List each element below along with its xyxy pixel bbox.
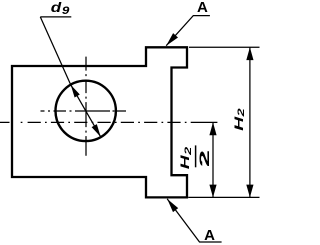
section arrow A bottom xyxy=(167,199,178,212)
svg-text:A: A xyxy=(197,0,208,16)
section arrow A top xyxy=(166,33,178,46)
d9 leader line xyxy=(40,17,70,85)
section leader A top xyxy=(166,16,210,46)
d9 lower arrowhead xyxy=(92,124,101,137)
d9 diameter line across hole xyxy=(71,85,101,137)
svg-text:2: 2 xyxy=(197,150,213,167)
H2 top arrowhead xyxy=(246,47,253,60)
vertical centerline of hole xyxy=(85,57,87,156)
H2 bottom arrowhead xyxy=(246,185,253,198)
horizontal centerline of hole xyxy=(41,110,127,112)
extension line top (H2) xyxy=(189,46,260,48)
H2/2 bottom arrowhead xyxy=(209,185,216,198)
svg-text:A: A xyxy=(204,227,215,244)
H2/2 top arrowhead xyxy=(209,122,216,135)
dimension line H2/2 xyxy=(212,122,214,197)
label H2/2 (rotated fraction) xyxy=(179,145,212,169)
d9 upper arrowhead xyxy=(71,85,80,98)
hole circle xyxy=(55,81,115,141)
d9 label underline xyxy=(40,16,71,18)
extension line bottom (H2, H2/2) xyxy=(188,196,259,198)
dimension line H2 xyxy=(249,47,251,197)
part outline xyxy=(12,47,187,197)
horizontal centerline of part xyxy=(0,121,217,123)
section leader A bottom xyxy=(167,199,221,242)
